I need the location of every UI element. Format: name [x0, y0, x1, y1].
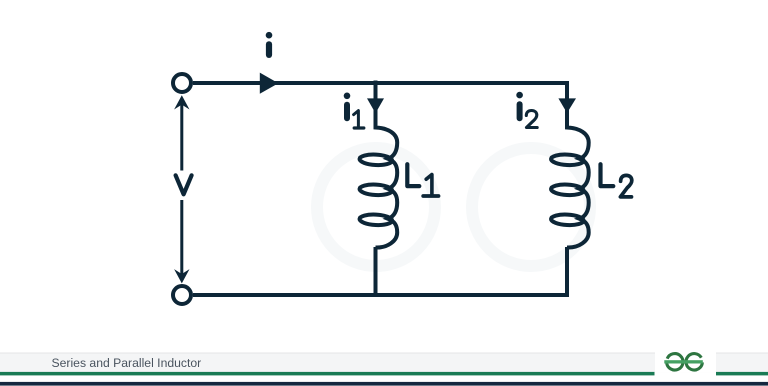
current i2 arrowhead [558, 98, 576, 113]
label i [266, 32, 273, 39]
current i1 arrowhead [367, 98, 384, 113]
V arrow shaft lower [180, 200, 183, 278]
label L1 [407, 164, 419, 186]
label L2 subscript 2 [620, 175, 631, 197]
label L2 [601, 164, 614, 186]
label i2 subscript 2 [526, 111, 537, 128]
wire: top horizontal [193, 81, 567, 85]
footer green rule left [0, 372, 655, 376]
V arrowhead down [174, 269, 189, 283]
svg-text:Series and Parallel Inductor: Series and Parallel Inductor [52, 356, 202, 370]
wire: branch 2 bottom stub [565, 247, 569, 295]
GfG logo left G ring [667, 354, 683, 370]
inductor L2 coil [551, 124, 589, 248]
wire: branch 2 top corner [565, 81, 569, 129]
watermark ring left [317, 148, 435, 266]
V arrow shaft upper [180, 102, 183, 171]
label i1 subscript 1 [354, 111, 359, 127]
logo white backdrop [655, 353, 716, 373]
inductor L1 coil [359, 124, 397, 248]
GfG logo right G ring [686, 354, 702, 370]
GfG logo bar [664, 360, 703, 363]
footer green rule right [716, 372, 768, 376]
wire: branch 1 drop from top wire [374, 81, 378, 130]
label L1 subscript 1 [426, 175, 432, 195]
wire: bottom horizontal [193, 293, 569, 297]
V arrowhead up [174, 95, 189, 109]
label i2 [516, 92, 523, 99]
wire: branch 1 bottom stub [374, 247, 378, 295]
footer bottom navy rule [0, 382, 768, 386]
label i1 [344, 93, 351, 100]
label V [176, 175, 192, 194]
current i arrowhead on top wire [260, 73, 279, 94]
terminal circle bottom-left [173, 286, 191, 304]
footer band [0, 353, 768, 354]
watermark ring right [472, 148, 590, 266]
terminal circle top-left [173, 74, 191, 92]
